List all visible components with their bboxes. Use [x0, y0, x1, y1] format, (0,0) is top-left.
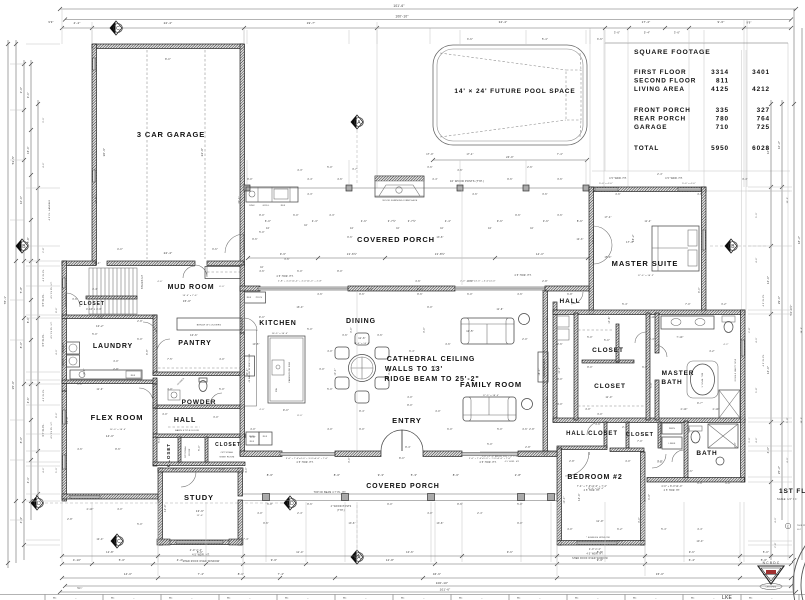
svg-text:17'-4": 17'-4" — [642, 20, 651, 24]
svg-text:5¼": 5¼" — [77, 586, 82, 590]
master shower — [719, 390, 740, 418]
svg-text:4'-4": 4'-4" — [697, 529, 703, 531]
svg-text:3'-0": 3'-0" — [639, 517, 641, 523]
closet divider 1 — [178, 437, 181, 463]
svg-text:REF: REF — [281, 205, 286, 207]
svg-text:BD.: BD. — [285, 598, 289, 600]
svg-text:CERTIFIED: CERTIFIED — [766, 587, 777, 589]
extension line top left — [61, 9, 63, 44]
master north window 2 — [678, 188, 701, 191]
svg-text:11'-0": 11'-0" — [97, 389, 104, 391]
svg-text:9'-0": 9'-0" — [427, 307, 433, 309]
svg-text:TOTAL: TOTAL — [634, 145, 659, 152]
svg-text:SECOND FLOOR: SECOND FLOOR — [634, 78, 696, 85]
svg-text:6'-0": 6'-0" — [642, 367, 648, 369]
svg-text:4 5' HOR. HT.: 4 5' HOR. HT. — [664, 490, 681, 492]
svg-text:11'-6": 11'-6" — [497, 309, 504, 311]
svg-text:6'-0": 6'-0" — [137, 339, 143, 341]
svg-text:2'-0": 2'-0" — [547, 317, 549, 323]
flex south wall — [62, 494, 158, 499]
svg-text:9'-6": 9'-6" — [252, 239, 258, 241]
svg-text:BD.: BD. — [633, 598, 637, 600]
svg-text:BD.: BD. — [575, 598, 579, 600]
closet west wall — [574, 313, 578, 420]
svg-text:3'-6": 3'-6" — [467, 38, 473, 41]
svg-text:9'-6": 9'-6" — [689, 550, 695, 554]
svg-text:3'-6": 3'-6" — [342, 335, 348, 337]
svg-text:3401: 3401 — [752, 69, 770, 76]
kitchen range — [245, 356, 255, 376]
bath west wall upper — [655, 313, 659, 353]
dimension line left x16 — [15, 40, 17, 563]
svg-text:4'-0": 4'-0" — [625, 461, 631, 463]
dimension line left x38 — [37, 100, 39, 500]
svg-text:DOUBLE VANITY SINK: DOUBLE VANITY SINK — [734, 358, 737, 381]
svg-text:BD.: BD. — [53, 598, 57, 600]
dimension line right x794 — [793, 9, 795, 591]
section marker D left — [31, 496, 43, 510]
svg-text:--: -- — [249, 598, 251, 600]
svg-text:3'-0": 3'-0" — [389, 369, 391, 375]
svg-text:22'-4": 22'-4" — [93, 263, 100, 265]
svg-text:4'-6": 4'-6" — [517, 294, 523, 296]
svg-text:4'-6": 4'-6" — [317, 294, 323, 296]
svg-text:11'-0": 11'-0" — [596, 519, 604, 523]
svg-text:REF: REF — [263, 436, 268, 438]
svg-text:5'-8": 5'-8" — [651, 382, 653, 388]
dimension line bottom y564 — [62, 563, 791, 565]
svg-text:REAR PORCH: REAR PORCH — [634, 116, 686, 123]
closet under stairs walls — [86, 296, 137, 299]
svg-text:3'-0": 3'-0" — [43, 117, 45, 122]
svg-text:WINE ROOM: WINE ROOM — [220, 457, 235, 459]
porch posts line — [244, 187, 590, 189]
svg-text:FLEX ROOM: FLEX ROOM — [91, 413, 144, 422]
porch edge left of bedroom — [480, 451, 557, 453]
north window band west — [258, 287, 348, 290]
svg-text:3'-6": 3'-6" — [542, 194, 548, 196]
svg-text:19'-7": 19'-7" — [307, 21, 316, 25]
svg-text:6'-0": 6'-0" — [699, 287, 701, 293]
svg-text:4'-0": 4'-0" — [246, 467, 248, 473]
svg-text:6028: 6028 — [752, 145, 770, 152]
side table top — [519, 314, 530, 325]
flex south window — [70, 496, 100, 499]
svg-text:13'-6": 13'-6" — [196, 509, 204, 513]
svg-text:5'-0" x 4'-0": 5'-0" x 4'-0" — [682, 183, 696, 185]
svg-text:4 5' FL PL. HT.: 4 5' FL PL. HT. — [51, 321, 53, 339]
svg-text:6'-6": 6'-6" — [687, 470, 693, 473]
svg-text:--: -- — [365, 598, 367, 600]
svg-text:4'-0": 4'-0" — [327, 429, 333, 431]
svg-text:5'-0": 5'-0" — [92, 334, 98, 336]
svg-text:16'-0": 16'-0" — [26, 146, 30, 154]
svg-text:C: C — [116, 26, 120, 32]
svg-text:10': 10' — [396, 228, 400, 230]
svg-text:16'-0": 16'-0" — [19, 196, 23, 204]
powder west wall — [153, 378, 157, 408]
svg-text:7'-10": 7'-10" — [648, 317, 655, 319]
svg-text:BENCH W LOCKERS: BENCH W LOCKERS — [197, 325, 222, 327]
grid line horizontal y191 right — [706, 190, 790, 192]
svg-text:3'-0": 3'-0" — [557, 379, 563, 381]
svg-text:3'-0": 3'-0" — [657, 461, 663, 463]
svg-text:3'-4": 3'-4" — [742, 179, 748, 181]
logo oval banner — [760, 584, 782, 590]
svg-text:9'-0": 9'-0" — [359, 429, 365, 431]
svg-text:8'-0": 8'-0" — [165, 58, 171, 61]
svg-text:10': 10' — [260, 267, 264, 269]
svg-text:2'-4": 2'-4" — [297, 513, 303, 515]
svg-text:3'-6": 3'-6" — [212, 248, 218, 251]
svg-text:MASTER: MASTER — [662, 370, 695, 377]
house west wall upper — [62, 261, 67, 391]
svg-text:13'-8½": 13'-8½" — [435, 252, 446, 256]
svg-text:BATH: BATH — [696, 450, 717, 457]
svg-text:8'-6": 8'-6" — [197, 550, 203, 554]
svg-text:5'-0": 5'-0" — [487, 444, 493, 446]
svg-text:3'-7½": 3'-7½" — [408, 219, 417, 223]
svg-text:9'-6": 9'-6" — [467, 281, 473, 283]
svg-text:13'-6": 13'-6" — [348, 523, 355, 525]
bath door arc — [652, 454, 666, 468]
svg-text:3'-6": 3'-6" — [427, 167, 433, 169]
svg-text:4'-0": 4'-0" — [113, 361, 119, 363]
svg-text:4 5' HOR. HT.: 4 5' HOR. HT. — [505, 461, 520, 463]
svg-text:2'-8": 2'-8" — [137, 321, 143, 323]
door arc closet west — [66, 293, 80, 307]
svg-text:12'-8": 12'-8" — [106, 550, 114, 554]
garage north wall — [92, 44, 244, 49]
svg-text:5'-4": 5'-4" — [542, 38, 548, 41]
svg-text:5'-8": 5'-8" — [756, 387, 758, 392]
sofa top — [461, 318, 514, 344]
south window east — [462, 453, 518, 456]
porch post bottom — [342, 494, 349, 501]
svg-text:14'-6": 14'-6" — [801, 327, 803, 334]
svg-text:WKIN: WKIN — [669, 428, 675, 430]
svg-text:30'-6": 30'-6" — [96, 196, 98, 203]
svg-text:13'-6½": 13'-6½" — [347, 252, 358, 256]
svg-text:4'-0": 4'-0" — [257, 513, 263, 515]
svg-text:KITCHEN: KITCHEN — [259, 320, 296, 327]
svg-text:14'-0": 14'-0" — [766, 366, 770, 374]
svg-text:2'-8": 2'-8" — [515, 473, 522, 477]
svg-text:8'-6": 8'-6" — [56, 412, 58, 417]
svg-text:17'-4": 17'-4" — [466, 154, 473, 156]
marker B right line — [710, 245, 725, 247]
svg-text:14'-3": 14'-3" — [576, 239, 583, 241]
grid line vertical x744 — [743, 20, 745, 187]
svg-text:--: -- — [597, 598, 599, 600]
linen boxes — [662, 423, 682, 434]
svg-text:4'-6": 4'-6" — [615, 194, 621, 196]
svg-text:4 5' FL PL.: 4 5' FL PL. — [43, 388, 45, 401]
svg-text:4 5' WDR. HT.: 4 5' WDR. HT. — [609, 177, 627, 180]
main north wall seg1 — [240, 286, 260, 291]
svg-text:10'-0": 10'-0" — [335, 368, 337, 375]
svg-text:4'-2": 4'-2" — [709, 351, 715, 353]
svg-text:8'-8": 8'-8" — [597, 550, 603, 554]
entry double door — [381, 430, 402, 451]
svg-text:10'-0": 10'-0" — [696, 541, 703, 543]
grid line vertical x689 table — [688, 43, 690, 171]
dimension line top segments — [62, 27, 791, 29]
stairs up — [89, 268, 137, 314]
hall west upper — [153, 408, 157, 434]
bedroom2 west wall — [557, 448, 562, 545]
extension lines left — [26, 43, 60, 45]
svg-text:3'-6": 3'-6" — [543, 219, 549, 223]
east grid double line above wing — [741, 50, 743, 310]
garage east wall — [240, 44, 245, 265]
door arc closet entry right — [635, 332, 646, 343]
svg-text:4'-2": 4'-2" — [723, 344, 728, 346]
svg-text:3'-0": 3'-0" — [424, 327, 426, 333]
svg-text:BATH: BATH — [661, 379, 682, 386]
svg-text:4'-0": 4'-0" — [172, 469, 178, 471]
bedroom2 egress window — [577, 542, 617, 545]
svg-text:100'-10": 100'-10" — [436, 581, 449, 585]
svg-text:4'-4": 4'-4" — [307, 179, 313, 181]
svg-text:4 5' FL PL.: 4 5' FL PL. — [43, 268, 45, 281]
pool dim line — [433, 159, 587, 161]
study south posts — [157, 539, 170, 545]
barn door dashed — [168, 426, 200, 428]
svg-text:BD.: BD. — [401, 598, 405, 600]
svg-text:46'-6": 46'-6" — [433, 572, 441, 576]
door arc hall closet right — [587, 422, 600, 435]
powder north wall — [153, 372, 244, 376]
svg-text:4'-6": 4'-6" — [157, 281, 162, 283]
svg-text:6'-4": 6'-4" — [689, 558, 696, 562]
svg-text:11'-6" x 14'-0": 11'-6" x 14'-0" — [354, 343, 370, 345]
dryer box — [67, 355, 80, 367]
svg-text:4'-6": 4'-6" — [26, 397, 30, 403]
door arc garage to mud room — [195, 265, 207, 277]
svg-text:8'-6": 8'-6" — [115, 449, 121, 451]
svg-text:4125: 4125 — [711, 86, 729, 93]
svg-text:4'-0": 4'-0" — [162, 414, 168, 416]
svg-text:3'-0": 3'-0" — [351, 327, 353, 333]
svg-text:--: -- — [539, 598, 541, 600]
svg-text:5'-0": 5'-0" — [517, 504, 523, 506]
svg-text:10': 10' — [266, 227, 270, 230]
svg-text:FIRST FLOOR: FIRST FLOOR — [634, 69, 687, 76]
svg-text:10'-0": 10'-0" — [787, 197, 789, 204]
svg-text:B: B — [731, 244, 735, 250]
mud east wall — [240, 265, 245, 333]
door arc master bath entry — [655, 345, 667, 357]
svg-text:4'-6": 4'-6" — [445, 344, 451, 346]
svg-text:4'-0": 4'-0" — [787, 457, 789, 462]
svg-text:9'-0": 9'-0" — [517, 523, 523, 525]
svg-text:3314: 3314 — [711, 69, 729, 76]
svg-text:29'-0": 29'-0" — [777, 296, 781, 304]
family east wall — [543, 290, 548, 455]
svg-text:40'-0": 40'-0" — [247, 368, 249, 375]
door arc laundry — [143, 322, 157, 336]
dining chairs — [355, 333, 369, 345]
svg-text:4'-0": 4'-0" — [117, 248, 123, 251]
svg-text:(TYP.): (TYP.) — [337, 510, 345, 512]
svg-text:CATHEDRAL CEILING: CATHEDRAL CEILING — [387, 356, 476, 363]
svg-text:3'-6": 3'-6" — [284, 259, 290, 261]
svg-text:N C B D C: N C B D C — [763, 561, 780, 565]
svg-text:5'-0": 5'-0" — [763, 550, 769, 554]
svg-text:BEDROOM #2: BEDROOM #2 — [567, 474, 622, 481]
porch post — [346, 185, 352, 191]
svg-text:725: 725 — [757, 124, 770, 131]
svg-text:764: 764 — [757, 116, 770, 123]
powder toilet — [199, 381, 207, 392]
svg-text:11'-6": 11'-6" — [358, 336, 366, 340]
study north wall — [158, 468, 243, 472]
svg-text:9'-6": 9'-6" — [280, 252, 286, 256]
svg-text:BD.: BD. — [111, 598, 115, 600]
svg-text:15'-0": 15'-0" — [183, 299, 191, 303]
svg-text:9'-7": 9'-7" — [697, 402, 703, 405]
svg-text:2'-8": 2'-8" — [749, 327, 751, 332]
svg-text:4'-3": 4'-3" — [297, 170, 303, 172]
svg-text:4'-0": 4'-0" — [585, 409, 591, 411]
garage bay dashed lines — [146, 50, 148, 259]
svg-text:BD.: BD. — [169, 598, 173, 600]
svg-text:10': 10' — [530, 228, 534, 230]
grid line vertical x590 — [589, 28, 591, 187]
east exterior wall — [741, 310, 746, 482]
svg-text:2'-4": 2'-4" — [622, 427, 628, 429]
svg-text:9'9": 9'9" — [746, 21, 751, 25]
svg-text:--: -- — [191, 598, 193, 600]
bedroom2 door arc — [565, 452, 589, 476]
bath shower — [708, 424, 738, 448]
svg-text:PANTRY: PANTRY — [178, 340, 211, 347]
svg-text:4'-6": 4'-6" — [697, 194, 703, 196]
garage south wall east segment — [207, 261, 244, 266]
extension lines top to porch — [246, 160, 248, 184]
laundry sink — [79, 372, 85, 378]
svg-text:16'-2": 16'-2" — [777, 141, 781, 149]
svg-text:3'-0": 3'-0" — [26, 92, 30, 98]
south window west — [280, 453, 335, 456]
svg-text:101'-6": 101'-6" — [440, 588, 451, 592]
study east wall upper — [238, 468, 243, 496]
svg-text:6'-8": 6'-8" — [147, 349, 149, 355]
svg-text:9'-6": 9'-6" — [497, 219, 503, 223]
svg-text:6'-4": 6'-4" — [409, 351, 415, 353]
svg-text:1ST FLO: 1ST FLO — [779, 488, 805, 495]
laundry chute boxes — [557, 316, 569, 327]
svg-text:4'-4": 4'-4" — [445, 219, 451, 223]
svg-text:5'-0": 5'-0" — [137, 524, 143, 526]
svg-text:BD.: BD. — [691, 598, 695, 600]
svg-text:12'-0": 12'-0" — [197, 515, 204, 517]
svg-text:48 RANGE W VENT HOOD: 48 RANGE W VENT HOOD — [248, 353, 251, 382]
svg-text:6'-0": 6'-0" — [547, 397, 549, 403]
svg-text:CLOSET: CLOSET — [215, 442, 241, 448]
svg-text:5'-0": 5'-0" — [159, 437, 161, 443]
svg-text:SHED ROOF OVER WINDOW: SHED ROOF OVER WINDOW — [182, 560, 220, 563]
kitchen counter west — [245, 330, 257, 406]
svg-text:4'-6": 4'-6" — [415, 281, 421, 283]
svg-text:HALL CLOSET: HALL CLOSET — [566, 431, 618, 437]
svg-text:10'-0": 10'-0" — [84, 368, 86, 375]
svg-text:4'-6": 4'-6" — [457, 170, 463, 172]
house west wall lower — [62, 391, 67, 501]
svg-text:22'-0": 22'-0" — [239, 196, 241, 203]
svg-text:4'-0": 4'-0" — [756, 337, 758, 342]
svg-text:2'-8": 2'-8" — [67, 519, 73, 521]
porch sink grill counter — [246, 187, 298, 202]
svg-text:REF: REF — [250, 441, 255, 443]
laundry north wall — [62, 315, 157, 319]
svg-text:COVERED PORCH: COVERED PORCH — [357, 235, 435, 244]
svg-text:4'-0": 4'-0" — [219, 359, 225, 361]
svg-text:4'-10": 4'-10" — [712, 409, 719, 411]
section marker D mid — [284, 496, 296, 510]
svg-text:GARAGE: GARAGE — [634, 124, 667, 131]
svg-text:7'-4": 7'-4" — [243, 539, 249, 541]
svg-text:8'-0": 8'-0" — [407, 405, 413, 407]
section marker B right — [725, 239, 737, 253]
svg-text:4'-6": 4'-6" — [77, 449, 83, 451]
main north wall seg2 — [348, 286, 455, 291]
door arc mud bench — [183, 266, 195, 278]
svg-text:PROV: PROV — [256, 297, 263, 299]
svg-text:3'-6": 3'-6" — [557, 215, 563, 217]
future pool space outline — [433, 45, 587, 145]
svg-text:9'9": 9'9" — [48, 20, 53, 24]
svg-text:COVERED PORCH: COVERED PORCH — [366, 483, 440, 490]
svg-text:3'-0": 3'-0" — [77, 384, 83, 386]
svg-text:6'-6": 6'-6" — [697, 483, 703, 485]
svg-text:SINK: SINK — [249, 205, 255, 207]
svg-text:D: D — [37, 501, 41, 507]
svg-text:17'-4": 17'-4" — [604, 217, 611, 219]
svg-text:--: -- — [133, 598, 135, 600]
svg-text:4'-10": 4'-10" — [86, 509, 93, 511]
svg-text:5'-0": 5'-0" — [56, 467, 58, 472]
study south wall — [158, 540, 243, 545]
svg-text:5'-0": 5'-0" — [259, 232, 265, 234]
svg-text:4'-0": 4'-0" — [117, 509, 123, 511]
svg-text:6'-0": 6'-0" — [267, 504, 273, 506]
porch post — [523, 185, 529, 191]
svg-text:9'-0": 9'-0" — [259, 316, 265, 319]
mud room north wall west segment — [62, 261, 96, 266]
svg-text:MUD ROOM: MUD ROOM — [168, 284, 215, 291]
svg-text:5'-0": 5'-0" — [307, 329, 313, 331]
svg-text:3'-0": 3'-0" — [349, 457, 351, 463]
svg-text:9'-6": 9'-6" — [515, 215, 521, 217]
section marker A bottom — [351, 550, 363, 564]
svg-text:15'-0": 15'-0" — [604, 257, 611, 259]
wing north wall — [553, 310, 745, 315]
svg-text:22'-4": 22'-4" — [164, 21, 173, 25]
grid line vertical x430 — [429, 28, 431, 44]
master suite north wall — [589, 187, 706, 192]
svg-text:5950: 5950 — [711, 145, 729, 152]
svg-text:14' × 24' FUTURE POOL SPACE: 14' × 24' FUTURE POOL SPACE — [454, 88, 575, 95]
hall north wall — [153, 405, 244, 409]
door arc powder — [210, 393, 222, 405]
svg-text:12'-8": 12'-8" — [386, 558, 394, 562]
svg-text:B: B — [22, 244, 26, 250]
svg-text:4'-10": 4'-10" — [73, 558, 81, 562]
study south window — [176, 541, 223, 544]
pantry shelves dashed — [158, 367, 240, 369]
